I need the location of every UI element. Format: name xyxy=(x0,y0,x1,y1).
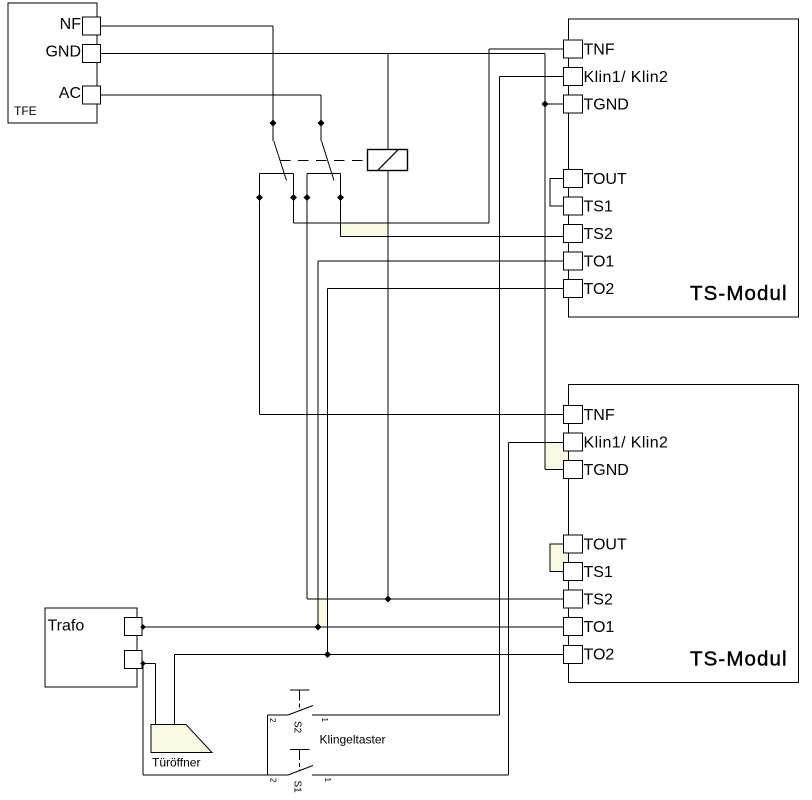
pin TS1 top module xyxy=(564,197,583,215)
junction relay to TS2 run xyxy=(385,596,392,603)
svg-text:2: 2 xyxy=(269,778,278,783)
block TS-Modul U1 (top outline) xyxy=(569,19,799,317)
svg-text:TOUT: TOUT xyxy=(584,537,627,554)
svg-text:TS-Modul: TS-Modul xyxy=(690,648,788,671)
svg-text:TS1: TS1 xyxy=(584,564,613,581)
svg-text:TS1: TS1 xyxy=(584,199,613,216)
block Trafo (outline) xyxy=(45,608,137,687)
svg-text:TFE: TFE xyxy=(14,104,37,118)
wire GND horizontal from TFE xyxy=(100,53,545,55)
junction throw K1b left xyxy=(304,194,311,201)
svg-text:TS2: TS2 xyxy=(584,226,613,243)
pin TNF top module xyxy=(564,40,583,58)
wire TO2 drop to Türöffner xyxy=(174,655,176,726)
wire AC horizontal from TFE xyxy=(100,94,321,96)
wire TO2 bottom module horizontal xyxy=(175,654,566,656)
svg-text:TO2: TO2 xyxy=(584,281,615,298)
svg-text:TO2: TO2 xyxy=(584,647,615,664)
push button S2 contact arm xyxy=(288,706,313,716)
junction throw K1b right xyxy=(337,194,344,201)
svg-text:TOUT: TOUT xyxy=(584,171,627,188)
wire TS2 bottom module horizontal xyxy=(307,598,565,600)
wire NF vertical to switch K1a pole xyxy=(272,26,274,141)
wire TO2 top module riser xyxy=(327,289,329,655)
wire TNF top run horizontal xyxy=(294,222,490,224)
wire S2 input drop to bus xyxy=(267,715,269,775)
wire Klin bottom module horizontal xyxy=(509,442,566,444)
pin TOUT top module xyxy=(564,170,583,188)
pin TGND bottom module xyxy=(564,461,583,479)
mechanical link dashed xyxy=(280,160,368,162)
pin AC of TFE xyxy=(83,86,101,104)
svg-text:S2: S2 xyxy=(292,721,303,734)
pin 1 of Trafo xyxy=(125,618,143,636)
junction TGND tap xyxy=(542,101,549,108)
pin Klin1/Klin2 top module xyxy=(564,68,583,86)
wire K1b right throw down xyxy=(340,174,342,237)
wire TO1 bottom module from Trafo xyxy=(142,626,565,628)
wire Trafo pin2 down bus xyxy=(142,664,144,776)
wire NF horizontal from TFE xyxy=(100,25,273,27)
pin TO2 top module xyxy=(564,280,583,298)
pin Klin1/Klin2 bottom module xyxy=(564,433,583,451)
wire GND bus vertical xyxy=(544,54,546,470)
wire S2 input stub xyxy=(268,714,289,716)
pin GND of TFE xyxy=(83,45,101,63)
pin TO2 bottom module xyxy=(564,646,583,664)
svg-text:Trafo: Trafo xyxy=(48,618,85,635)
pin TGND top module xyxy=(564,95,583,113)
fill area between TO1/TO2 risers xyxy=(318,599,328,627)
pin NF of TFE xyxy=(83,17,101,35)
wire TO1 top module horizontal xyxy=(318,260,565,262)
fill area Klin/TGND bottom module xyxy=(545,443,564,470)
wire Trafo pin2 stub xyxy=(142,663,156,665)
wire TNF bottom module horizontal xyxy=(260,414,566,416)
wire relay coil to TS2 bottom run xyxy=(387,171,389,600)
svg-text:1: 1 xyxy=(320,718,329,723)
svg-text:Türöffner: Türöffner xyxy=(152,756,200,770)
pin TS2 top module xyxy=(564,225,583,243)
svg-text:GND: GND xyxy=(45,44,81,61)
wire Klin top module horizontal xyxy=(500,76,566,78)
fill area TOUT/TS1 bottom module xyxy=(550,544,564,572)
svg-text:TNF: TNF xyxy=(584,42,615,59)
svg-text:Klin1/ Klin2: Klin1/ Klin2 xyxy=(584,435,669,452)
relay coil K1 xyxy=(368,150,408,171)
wire TO1 top module riser xyxy=(317,261,319,627)
svg-text:TO1: TO1 xyxy=(584,254,615,271)
svg-text:TS-Modul: TS-Modul xyxy=(690,282,788,305)
svg-text:Klingeltaster: Klingeltaster xyxy=(320,733,386,747)
push button S1 contact arm xyxy=(288,766,313,776)
wire TS2 top run into pin xyxy=(341,236,566,238)
block TS-Modul U2 (bottom outline) xyxy=(569,385,799,683)
block TFE (outline) xyxy=(8,3,97,123)
pin TO1 top module xyxy=(564,252,583,270)
wire throw bar of switch K1a xyxy=(260,173,294,175)
svg-text:Klin1/ Klin2: Klin1/ Klin2 xyxy=(584,69,669,86)
wire AC vertical to switch K1b pole xyxy=(320,95,322,141)
junction TO2 runs xyxy=(324,651,331,658)
wire S1 output to riser xyxy=(312,774,509,776)
svg-text:TNF: TNF xyxy=(584,407,615,424)
pin 2 of Trafo xyxy=(125,651,143,669)
wire S2 output to riser xyxy=(312,714,500,716)
svg-text:2: 2 xyxy=(268,718,277,723)
wire TOUT-TS1 link top module xyxy=(550,179,565,207)
pin TO1 bottom module xyxy=(564,618,583,636)
pin TNF bottom module xyxy=(564,406,583,424)
pin TOUT bottom module xyxy=(564,535,583,553)
wire bottom bus to S1 xyxy=(143,774,288,776)
svg-text:TGND: TGND xyxy=(584,97,629,114)
wire TNF top riser xyxy=(488,49,490,223)
wire K1a right throw down xyxy=(293,174,295,224)
svg-text:NF: NF xyxy=(60,16,82,33)
svg-text:AC: AC xyxy=(59,85,81,102)
svg-text:TS2: TS2 xyxy=(584,592,613,609)
switch K1a arm xyxy=(274,141,287,181)
wire Klin top module riser down to S2 xyxy=(499,77,501,716)
svg-text:TGND: TGND xyxy=(584,462,629,479)
pin TS2 bottom module xyxy=(564,590,583,608)
wire K1a left throw down to TNF bottom run xyxy=(259,174,261,415)
wire throw bar of switch K1b xyxy=(307,173,341,175)
push button S2 actuator xyxy=(290,690,310,711)
door opener Türöffner symbol xyxy=(151,725,212,753)
wire Türöffner left drop xyxy=(155,664,157,726)
fill notch between TOUT and TS1 pins xyxy=(563,554,568,562)
junction pole of K1a xyxy=(270,120,277,127)
junction TO1 runs xyxy=(315,624,322,631)
wire Klin bottom module riser down to S1 xyxy=(508,443,510,776)
fill notch between Klin and TGND pins xyxy=(563,452,568,460)
wire into TNF pin top module xyxy=(489,48,565,50)
wire TOUT-TS1 link bottom module xyxy=(550,544,565,572)
junction throw K1a right xyxy=(290,194,297,201)
junction throw K1a left xyxy=(256,194,263,201)
switch K1b arm xyxy=(322,141,335,181)
svg-text:1: 1 xyxy=(323,778,332,783)
wire TO2 top module horizontal xyxy=(328,288,566,290)
junction Trafo pin2 xyxy=(140,661,146,667)
wire TGND top module xyxy=(545,103,565,105)
svg-text:S1: S1 xyxy=(292,781,303,794)
wire K1b left throw down to TS2 bottom run xyxy=(306,174,308,600)
wire relay coil feed from GND xyxy=(387,54,389,150)
fill area between wires near relay xyxy=(341,223,388,237)
junction pole of K1b xyxy=(318,120,325,127)
junction Trafo pin1 xyxy=(140,624,146,630)
push button S1 actuator xyxy=(290,750,310,771)
svg-text:TO1: TO1 xyxy=(584,619,615,636)
wire TGND bottom module xyxy=(545,469,565,471)
pin TS1 bottom module xyxy=(564,563,583,581)
